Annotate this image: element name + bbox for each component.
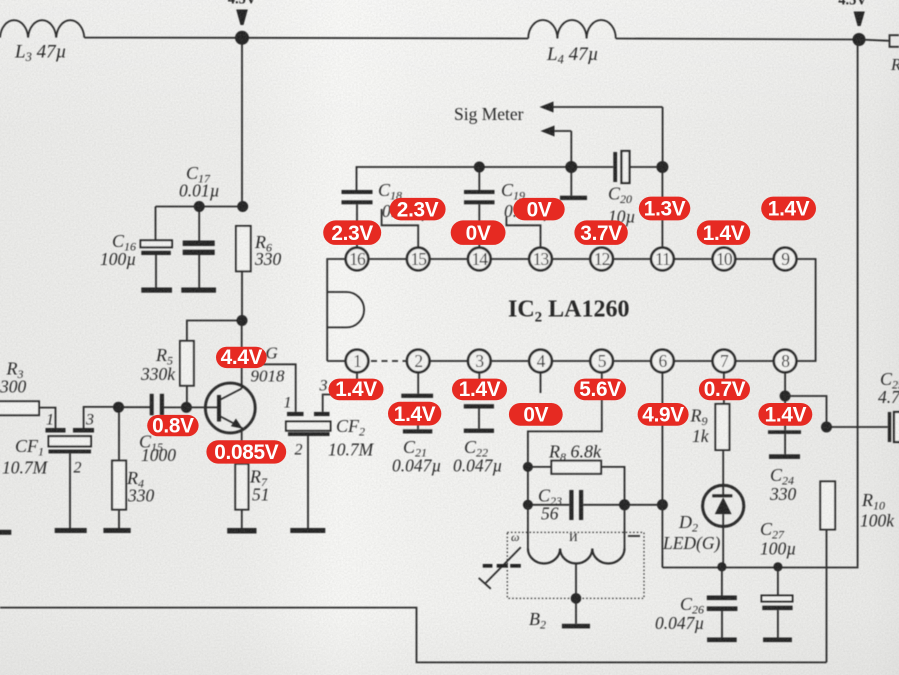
- node C27 junction: [773, 562, 782, 571]
- svg-text:1.4V: 1.4V: [459, 378, 501, 401]
- node R8 left junction: [523, 462, 533, 472]
- wire bottom step left: [0, 608, 827, 663]
- IC pin 14: [468, 248, 491, 271]
- wire collector rail: node A down to C17 node: [241, 38, 243, 207]
- IC pin 13: [529, 248, 552, 271]
- wire pin 7 stub: [723, 373, 725, 404]
- wire top cap rail: [357, 167, 614, 190]
- resistor R3 (cut off at left edge): [0, 359, 39, 416]
- resistor R9: [690, 404, 730, 450]
- node pin6 line junction: [657, 499, 668, 510]
- capacitor C15: [139, 394, 176, 465]
- node B junction: [853, 33, 866, 46]
- wire R5 top loop: [187, 321, 242, 341]
- node B2 tap junction: [571, 593, 582, 604]
- voltage label emitter 0.085V: [206, 440, 286, 464]
- voltage label pin3 1.4V: [452, 378, 507, 401]
- LED D2: [662, 485, 744, 553]
- wire long vertical from node B down right side: [857, 40, 859, 567]
- resistor R7: [235, 464, 269, 528]
- voltage label base 0.8V: [147, 414, 198, 437]
- node collector junction: [237, 315, 248, 326]
- IC pin 12: [590, 248, 613, 271]
- capacitor C17: [179, 163, 220, 288]
- IC pin 5: [590, 350, 613, 373]
- svg-text:2.3V: 2.3V: [331, 222, 373, 245]
- voltage label pin16 2.3V: [323, 220, 381, 245]
- ground for C17: [181, 288, 216, 293]
- wire R10 riser from bottom rail: [826, 530, 828, 663]
- ground for R7: [227, 528, 256, 534]
- svg-text:5.6V: 5.6V: [579, 378, 621, 401]
- adjustable core arrow: [479, 547, 521, 589]
- ground for C27: [763, 638, 792, 643]
- node sig rail junction: [565, 161, 577, 173]
- IC2 LA1260 body: [327, 259, 815, 361]
- voltage label pin6 4.9V: [638, 403, 689, 427]
- ground for B2: [562, 624, 590, 629]
- wire tap to ground: [575, 598, 577, 623]
- IC pin 11: [651, 248, 674, 271]
- svg-text:1.4V: 1.4V: [765, 404, 807, 427]
- voltage label pin15 2.3V: [390, 198, 446, 222]
- svg-text:1.4V: 1.4V: [335, 378, 377, 401]
- wire top rail right: L4 to node B: [616, 39, 859, 40]
- node C15/R5 base junction: [181, 402, 192, 413]
- wire node B to resistor R11: [859, 40, 890, 41]
- resistor R5: [140, 341, 194, 386]
- wire base node to transistor base: [186, 406, 218, 408]
- wire emitter down to R7: [241, 427, 243, 464]
- wire arrow2 down through rail to bar: [570, 131, 572, 196]
- ceramic filter CF2: [284, 378, 375, 529]
- sig meter arrow 2: [541, 126, 572, 137]
- capacitor C20: [608, 151, 662, 227]
- capacitor C21: [392, 373, 441, 475]
- svg-text:3.7V: 3.7V: [580, 222, 622, 245]
- capacitor C19: [464, 167, 553, 247]
- wire pin 5 down to R8 loop: [528, 373, 602, 505]
- wire pin 4 stub: [540, 373, 542, 393]
- svg-text:1.4V: 1.4V: [703, 222, 745, 245]
- node C23 right junction: [619, 499, 630, 510]
- voltage label pin4 0V: [509, 403, 563, 427]
- IC pin 7: [713, 350, 736, 373]
- wire pin 15 L-link: [382, 209, 419, 247]
- node C26 junction: [717, 562, 726, 571]
- svg-text:0.7V: 0.7V: [704, 378, 746, 401]
- node C17 junction: [194, 201, 205, 212]
- IC pin 10: [713, 248, 736, 271]
- wire pin8 node to R10 top: [785, 396, 826, 427]
- wire C16/C17 horizontal: [156, 206, 243, 208]
- svg-text:1.4V: 1.4V: [768, 198, 810, 221]
- node on collector rail at C17 row: [237, 201, 248, 212]
- ground for CF1: [55, 528, 87, 533]
- voltage label pin11 1.3V: [639, 197, 691, 221]
- IC pin 9: [774, 248, 797, 271]
- wire R10 node to C25: [827, 426, 888, 428]
- svg-text:4.9V: 4.9V: [642, 404, 684, 427]
- ground for C16: [141, 288, 172, 293]
- svg-text:1.3V: 1.3V: [644, 198, 686, 221]
- svg-text:0.085V: 0.085V: [214, 441, 279, 464]
- resistor R8: [528, 442, 625, 505]
- capacitor C23: [528, 486, 625, 524]
- wire collector from node to transistor: [241, 321, 243, 389]
- coil B2 dashed box: [507, 532, 644, 598]
- wire top rail middle: node A to L4: [242, 37, 528, 40]
- capacitor C22: [453, 373, 502, 475]
- IC pin 16: [346, 248, 369, 271]
- resistor R6: [236, 226, 282, 271]
- wire top rail left: L3 to node A: [84, 37, 242, 39]
- capacitor C18: [342, 180, 432, 247]
- voltage label pin13 0V: [513, 198, 565, 222]
- voltage label pin9 1.4V: [761, 197, 816, 221]
- wire pin 13 L-link: [506, 217, 540, 247]
- svg-text:2.3V: 2.3V: [397, 199, 439, 222]
- power symbol 4.5V left (clipped at top): [228, 0, 257, 25]
- IC pin 15: [407, 248, 430, 271]
- coil B2: [511, 505, 640, 632]
- voltage label pin7 0.7V: [699, 378, 750, 401]
- IC pin 3: [468, 350, 491, 373]
- IC pin 4: [529, 350, 552, 373]
- inductor L4: [528, 20, 616, 67]
- ground far left (cut): [0, 530, 11, 535]
- wire R3 to CF1 pin1: [39, 408, 56, 428]
- voltage label pin8 1.4V: [758, 403, 812, 427]
- voltage label pin10 1.4V: [697, 220, 750, 245]
- inductor L3: [0, 20, 84, 64]
- ground for R4: [103, 528, 130, 533]
- voltage label pin2 1.4V: [388, 402, 441, 426]
- voltage label pin5 5.6V: [574, 378, 626, 401]
- wire R5 bottom to base node: [186, 386, 188, 408]
- capacitor C16: [100, 207, 172, 288]
- ground for C26: [707, 638, 737, 643]
- svg-text:0V: 0V: [466, 222, 491, 245]
- node A junction: [235, 31, 249, 45]
- wire arrow1 down to rail: [662, 107, 664, 167]
- wire base rail to C15: [119, 406, 151, 408]
- wire pin 6 vertical: [661, 373, 663, 567]
- ceramic filter CF1: [2, 412, 94, 529]
- wire CF2 pin3 to IC pin1: [323, 373, 357, 412]
- IC pin 6: [651, 350, 674, 373]
- resistor R4: [112, 407, 154, 528]
- capacitor C27: [760, 519, 796, 638]
- wire collector tap to CF2 pin1: [242, 364, 296, 412]
- IC pin 2: [407, 350, 430, 373]
- capacitor C24: [768, 396, 801, 504]
- svg-text:0V: 0V: [527, 199, 552, 222]
- power symbol 4.5V right (clipped at top): [838, 0, 867, 26]
- wire B2 center tap: [575, 563, 577, 598]
- IC pin 1: [346, 350, 369, 373]
- wire rail node down to pin 11: [661, 167, 663, 247]
- voltage label pin1 1.4V: [329, 378, 384, 401]
- ground bar sig meter: [560, 196, 587, 200]
- resistor R11 (cut off at right edge): [890, 35, 899, 76]
- IC pin 8: [774, 350, 797, 373]
- svg-text:4.4V: 4.4V: [221, 346, 263, 369]
- node C19 rail junction: [474, 162, 485, 173]
- svg-text:0V: 0V: [523, 404, 548, 427]
- voltage label pin14 0V: [451, 220, 506, 245]
- svg-text:0.8V: 0.8V: [152, 414, 194, 437]
- wire C23 right to pin6 line: [625, 504, 663, 506]
- node C20 rail junction: [656, 161, 668, 173]
- wire LED to ground rail: [722, 527, 724, 567]
- transistor Q1 9018: [205, 344, 285, 433]
- wire CF1 pin3 to base rail: [84, 407, 119, 428]
- wire R9 to LED: [722, 450, 724, 485]
- node C23 left junction: [523, 500, 533, 510]
- capacitor C26: [655, 567, 737, 638]
- voltage label pin12 3.7V: [574, 220, 627, 245]
- svg-text:1.4V: 1.4V: [394, 403, 436, 426]
- wire pin 8 stub: [784, 373, 786, 396]
- node R10 top junction: [821, 422, 832, 433]
- sig meter arrow 1: [540, 102, 663, 113]
- node base rail R4 junction: [113, 402, 124, 413]
- wire C15 to base node: [164, 406, 186, 408]
- node pin 8 junction: [780, 391, 791, 402]
- wire ground rail: [662, 566, 857, 569]
- ground for CF2: [290, 528, 325, 533]
- voltage label collector 4.4V: [216, 346, 267, 369]
- wire R6 bottom to collector node: [241, 271, 243, 320]
- resistor R10: [820, 481, 895, 530]
- capacitor C25 (cut at right edge): [878, 369, 899, 442]
